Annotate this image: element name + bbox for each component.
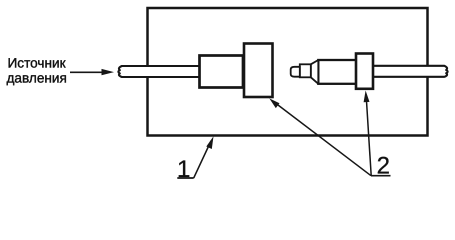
nozzle small cylinder: [300, 64, 311, 77]
nozzle tip cap: [291, 67, 300, 77]
leader wire from label 2 to connector block: [278, 105, 372, 176]
arrowhead at box bottom edge: [206, 136, 213, 149]
arrowhead at connector block corner: [269, 98, 279, 108]
leader wire from label 1 to box: [194, 141, 211, 178]
nozzle cone (chamfer): [311, 60, 319, 84]
connector block 2 (left, large): [244, 44, 273, 98]
label 2 underline: [371, 175, 391, 177]
svg-text:Источник: Источник: [8, 55, 67, 70]
inlet tube (pressure source pipe, left): [118, 66, 202, 77]
clamp sleeve 2 (right fitting nut): [356, 54, 373, 89]
nozzle body (right fitting): [318, 60, 357, 84]
coupling sleeve (left fitting nut): [200, 56, 244, 88]
svg-text:1: 1: [177, 156, 190, 183]
svg-text:давления: давления: [7, 71, 67, 86]
arrowhead at clamp sleeve bottom: [364, 91, 370, 103]
leader wire from label 2 to clamp sleeve: [366, 98, 371, 176]
outlet tube (right pipe): [365, 66, 448, 77]
enclosure box 1: [148, 8, 428, 136]
arrow from label to inlet tube: [70, 69, 114, 75]
label 1 underline: [177, 177, 193, 179]
